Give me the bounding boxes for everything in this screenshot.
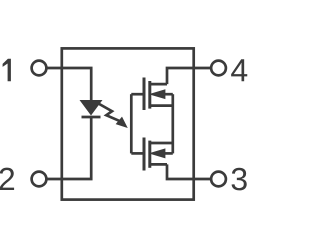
wire Q2 gate bbox=[131, 152, 144, 155]
wire Q2 drain to pin 3 bbox=[167, 164, 210, 179]
pin 3 terminal bbox=[211, 172, 226, 187]
wire Q1 gate bbox=[131, 93, 144, 96]
light emission arrow bbox=[98, 103, 127, 127]
pin 4 label bbox=[231, 59, 247, 81]
package outline bbox=[62, 48, 194, 199]
pin 4 terminal bbox=[211, 61, 226, 76]
MOSFET Q1 bbox=[144, 78, 173, 111]
MOSFET Q2 bbox=[144, 138, 173, 171]
LED D1 bbox=[81, 101, 102, 118]
pin 3 label bbox=[232, 168, 247, 191]
source-body bus wire bbox=[171, 94, 174, 153]
pin 1 label bbox=[3, 59, 11, 81]
pin 2 terminal bbox=[32, 172, 47, 187]
wire LED cathode to pin 2 bbox=[47, 117, 91, 179]
wire pin 4 to Q1 drain bbox=[167, 68, 210, 84]
wire pin 1 to LED anode bbox=[47, 68, 91, 101]
pin 1 terminal bbox=[32, 61, 47, 76]
gate bus wire bbox=[130, 94, 133, 153]
pin 2 label bbox=[0, 168, 14, 190]
